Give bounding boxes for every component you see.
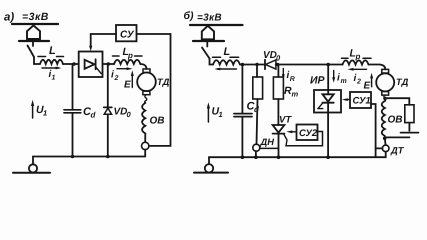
svg-text:а): а) [4, 12, 14, 24]
svg-text:СУ2: СУ2 [299, 128, 318, 139]
svg-text:б): б) [184, 10, 195, 22]
svg-text:VD: VD [114, 107, 128, 118]
svg-text:ДН: ДН [260, 137, 275, 147]
svg-text:VT: VT [279, 115, 292, 126]
svg-text:R: R [290, 76, 295, 83]
svg-text:СУ1: СУ1 [353, 96, 371, 107]
svg-text:=3кВ: =3кВ [22, 11, 49, 23]
svg-text:0: 0 [127, 110, 132, 119]
svg-text:2: 2 [114, 75, 119, 82]
svg-text:ТД: ТД [157, 77, 170, 87]
svg-text:d: d [254, 105, 260, 114]
svg-text:d: d [91, 111, 97, 120]
svg-text:L: L [49, 45, 56, 57]
svg-text:p: p [127, 51, 133, 60]
svg-text:т: т [341, 78, 347, 85]
svg-text:1: 1 [219, 110, 223, 119]
svg-text:0: 0 [276, 54, 281, 63]
svg-text:E: E [124, 80, 131, 91]
svg-text:p: p [355, 52, 361, 61]
svg-text:СУ: СУ [120, 30, 135, 41]
svg-text:1: 1 [43, 109, 47, 118]
svg-text:2: 2 [356, 79, 361, 86]
svg-text:L: L [224, 46, 231, 58]
svg-text:ОВ: ОВ [388, 115, 403, 126]
svg-text:VD: VD [263, 50, 277, 61]
svg-text:=3кВ: =3кВ [197, 13, 222, 24]
svg-text:1: 1 [52, 75, 56, 82]
svg-text:ИР: ИР [310, 75, 326, 87]
svg-text:ТД: ТД [396, 77, 409, 87]
svg-text:E: E [364, 81, 371, 92]
svg-text:ДТ: ДТ [390, 146, 405, 156]
svg-text:т: т [292, 90, 299, 99]
svg-text:ОВ: ОВ [150, 116, 165, 127]
